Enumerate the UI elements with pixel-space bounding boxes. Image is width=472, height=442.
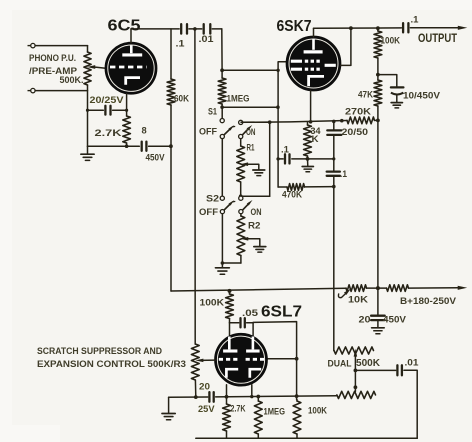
capacitor 20/50 cathode electrolytic (333, 121, 335, 130)
svg-text:R2: R2 (248, 221, 261, 231)
svg-text:PHONO P.U.: PHONO P.U. (29, 53, 76, 63)
svg-text:ON: ON (246, 127, 256, 137)
svg-text:6SK7: 6SK7 (277, 18, 312, 35)
node input jack upper terminal (28, 45, 31, 47)
wire 6SL7 cathode rail (169, 396, 208, 398)
svg-text:K: K (312, 134, 320, 144)
resistor 1MEG grid leak (221, 70, 223, 78)
svg-text:.01: .01 (405, 358, 419, 368)
svg-text:450V: 450V (146, 153, 165, 163)
wire 6C5 plate rail (131, 28, 179, 30)
ground at 34K (307, 159, 309, 166)
wire right grid tie (267, 358, 296, 360)
svg-text:20: 20 (199, 382, 210, 392)
wire 6SK7 plate to rail (313, 28, 315, 37)
wire 6SK7 control grid lead (278, 62, 287, 187)
svg-text:270K: 270K (345, 107, 372, 117)
wire scratch filter tap line (caps junction down to R3) (194, 29, 196, 344)
svg-text:1MEG: 1MEG (264, 407, 286, 417)
svg-text:20/50: 20/50 (342, 127, 369, 137)
potentiometer 500K input volume control (87, 46, 89, 52)
svg-text:.1: .1 (281, 145, 289, 155)
svg-text:60K: 60K (174, 94, 190, 104)
ground at 20/450V (372, 327, 385, 329)
potentiometer 10K hum balance (346, 285, 367, 292)
svg-text:.01: .01 (199, 34, 214, 44)
svg-text:100K: 100K (308, 406, 328, 416)
wire R2 bottom to ground node (222, 262, 241, 264)
svg-text:SCRATCH SUPPRESSOR AND: SCRATCH SUPPRESSOR AND (37, 346, 162, 356)
resistor 470K (278, 186, 287, 188)
wire 6SL7 right cathode lead (251, 385, 253, 397)
wire output rail (314, 27, 402, 29)
resistor 2.7K cathode bias (123, 116, 131, 143)
wire 6C5 cathode lead (126, 94, 128, 116)
wire bottom ground rail (196, 437, 417, 439)
svg-text:.1: .1 (411, 15, 419, 25)
wire .01 to ground rail (404, 370, 417, 438)
wire 6SL7 left cathode lead (226, 385, 228, 397)
svg-text:2.7K: 2.7K (231, 404, 246, 414)
svg-text:S1: S1 (208, 107, 217, 117)
wire lower input to volume pot bottom (35, 90, 87, 92)
wire B+ line from 270K down to rail (377, 120, 379, 288)
wire grid node to 6SK7 grid line (222, 69, 278, 71)
wiper arrow of 500K pot to 6C5 grid (97, 67, 106, 68)
svg-text:.1: .1 (340, 169, 347, 179)
switch S1 (220, 107, 253, 138)
svg-text:500K: 500K (356, 358, 381, 369)
svg-text:20/25V: 20/25V (90, 95, 124, 105)
ground at 10/450V (391, 102, 402, 104)
wiper of R2 to ground (240, 237, 248, 241)
capacitor 20/450V filter (377, 288, 379, 315)
svg-text:EXPANSION CONTROL 500K/R3: EXPANSION CONTROL 500K/R3 (37, 359, 186, 369)
ground at S2 (221, 263, 223, 267)
wiper link of DUAL pot (354, 354, 356, 391)
svg-text:470K: 470K (282, 190, 302, 200)
tube 6SK7 envelope (287, 37, 341, 91)
svg-text:OFF: OFF (199, 127, 217, 137)
wire 1MEG bottom to grid bias line (222, 106, 278, 108)
wire 6SK7 cathode rail (241, 121, 347, 123)
svg-text:25V: 25V (198, 404, 215, 414)
svg-text:100K: 100K (200, 298, 225, 308)
resistor 2.7K 6SL7 cathode (226, 397, 228, 404)
svg-text:8: 8 (142, 126, 147, 136)
svg-text:2.7K: 2.7K (95, 128, 122, 138)
capacitor 10/450V decoupling (378, 75, 397, 87)
wire cathode bottom to ground and coupling (88, 145, 140, 147)
potentiometer R3 scratch control 500K (194, 343, 196, 345)
resistor 60K plate load line (170, 29, 172, 79)
svg-text:.1: .1 (176, 39, 185, 49)
capacitor .1 output coupling (402, 23, 404, 32)
capacitor .05 plate-to-plate (230, 322, 239, 324)
capacitor 20/25V 6SL7 bias (208, 392, 210, 402)
resistor 34K cathode (307, 122, 309, 125)
capacitor .1 coupling (180, 24, 182, 33)
svg-text:S2: S2 (206, 194, 219, 204)
resistor 1MEG 6SL7 (257, 397, 259, 402)
tube 6SL7 envelope (215, 334, 267, 386)
capacitor .01 output lower (396, 365, 398, 375)
wiper of R3 to 6SL7 left grid (195, 359, 203, 363)
ground at R1 wiper (253, 169, 265, 171)
capacitor .1 lower (327, 170, 340, 172)
svg-text:450V: 450V (383, 315, 406, 325)
wire 34K junction to cap chain (308, 158, 334, 160)
svg-text:20: 20 (359, 315, 371, 325)
svg-text:DUAL: DUAL (328, 359, 352, 369)
svg-text:47K: 47K (358, 90, 373, 100)
potentiometer DUAL 500K upper section (334, 347, 374, 354)
capacitor .01 coupling (203, 24, 205, 33)
resistor 100K 6SL7 load (293, 401, 301, 434)
capacitor .1 grid-bias bypass (278, 158, 283, 160)
resistor 100K 6SL7 plate feed (228, 289, 232, 293)
svg-text:R1: R1 (247, 143, 255, 153)
wire R1 bottom to on-line (241, 195, 270, 197)
wire 6SK7 cathode lead (310, 90, 312, 122)
resistor 100K plate load 6SK7 (377, 28, 379, 31)
svg-text:OFF: OFF (199, 207, 219, 217)
wire left plate drop (229, 323, 231, 336)
capacitor 20/25V cathode bypass (88, 109, 104, 111)
svg-text:6C5: 6C5 (108, 17, 141, 34)
svg-text:100K: 100K (381, 36, 401, 46)
wire wiper to .01 cap (355, 369, 395, 371)
wire S2 off-line to ground (221, 214, 223, 263)
wire 6C5 plate to top rail (130, 29, 132, 43)
svg-text:1MEG: 1MEG (227, 94, 250, 104)
wiper of R1 to ground (240, 162, 248, 166)
ground at R2 wiper (254, 246, 266, 248)
resistor 270K (347, 117, 375, 124)
svg-text:10/450V: 10/450V (403, 91, 440, 101)
wire .01 cap down to grid node (221, 29, 223, 70)
svg-text:6SL7: 6SL7 (261, 304, 302, 321)
potentiometer DUAL 500K lower section (337, 391, 376, 398)
potentiometer R1 expansion (240, 139, 242, 146)
svg-text:10K: 10K (348, 295, 369, 305)
wire B+ rail (171, 288, 346, 291)
node input jack lower terminal (28, 90, 31, 92)
wire 6SK7 screen to rail (341, 28, 351, 65)
svg-text:.05: .05 (242, 308, 258, 318)
resistor 47K screen dropping (377, 75, 379, 80)
svg-text:500K.: 500K. (60, 75, 84, 85)
wire S1 on-contact to cathode rail (243, 121, 270, 123)
wiper arrow of 10K (338, 293, 346, 298)
wire S1/S2 on-line vertical (269, 122, 271, 196)
potentiometer R2 expansion (240, 214, 242, 216)
resistor B+ series (387, 285, 409, 292)
switch S2 (220, 139, 253, 214)
tube 6C5 envelope (105, 43, 156, 94)
svg-text:B+180-250V: B+180-250V (400, 296, 457, 306)
capacitor 8/450V decoupling electrolytic (141, 142, 143, 151)
svg-text:OUTPUT: OUTPUT (418, 33, 457, 45)
ground at 6C5 cathode divider (87, 146, 89, 154)
wire right plate tie line (253, 322, 297, 400)
svg-text:ON: ON (251, 207, 262, 217)
ground at 6SL7 bias (168, 397, 170, 413)
wire upper input to volume pot (35, 45, 87, 47)
